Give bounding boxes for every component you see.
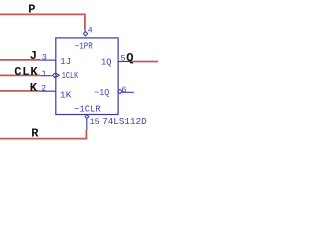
wire net P vertical [84,13,86,28]
svg-text:6: 6 [122,86,127,95]
svg-text:K: K [30,81,38,95]
svg-text:P: P [28,3,35,17]
pin 4 stub (~1PR preset, top) [84,28,86,31]
svg-text:4: 4 [88,27,93,36]
svg-text:3: 3 [42,54,47,63]
pin 5 stub (1Q) [118,61,131,63]
pin 6 stub [122,91,134,93]
pin 1 stub (1CLK) [40,75,52,77]
svg-text:74LS112D: 74LS112D [102,116,147,127]
svg-text:1J: 1J [60,56,71,67]
svg-text:2: 2 [41,84,46,93]
svg-text:CLK: CLK [14,65,38,79]
svg-text:~1Q: ~1Q [94,87,109,98]
svg-text:~1CLR: ~1CLR [74,104,101,115]
pin 15 bubble (~1CLR clear, bottom) [85,115,89,119]
pin 1 bubble [53,73,57,77]
svg-text:1CLK: 1CLK [62,70,79,81]
clock triangle [56,73,60,77]
svg-text:15: 15 [90,118,100,127]
svg-text:5: 5 [121,55,126,64]
wire net R horizontal [0,138,87,140]
svg-text:1K: 1K [60,90,72,101]
op body: U1 74LS112D box [56,38,118,115]
wire net J [0,59,40,61]
wire net Q output [131,61,158,63]
wire net CLK [0,74,40,76]
svg-text:R: R [31,127,39,141]
wire net P horizontal [0,13,85,15]
pin 2 stub (1K) [40,90,56,92]
pin 3 stub (1J) [40,59,55,61]
svg-text:1Q: 1Q [101,57,112,68]
wire net R vertical [85,130,87,139]
svg-text:Q: Q [126,51,133,65]
pin 6 bubble (~1Q) [118,89,122,93]
svg-text:1: 1 [42,70,47,79]
wire net K [0,90,40,92]
pin 15 stub [86,119,88,130]
svg-text:~1PR: ~1PR [75,41,93,52]
svg-text:J: J [30,49,37,63]
pin 4 bubble [83,32,87,36]
